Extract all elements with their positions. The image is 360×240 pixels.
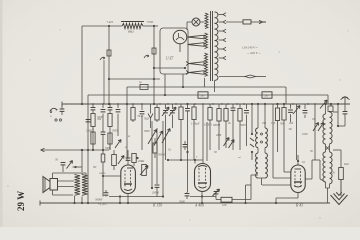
capacitor C10: [101, 128, 113, 151]
grid label: [158, 154, 166, 157]
svg-text:100: 100: [222, 203, 227, 207]
svg-text:5Ω: 5Ω: [289, 128, 292, 131]
tube V2 grid: [199, 168, 206, 186]
RF coil L2b upper: [330, 111, 333, 144]
bandfilter BF1 coil a upper: [256, 104, 258, 148]
tube V2 envelope A409: [195, 164, 211, 192]
resistor R14: [132, 154, 136, 167]
svg-text:5000: 5000: [105, 147, 111, 150]
resistor R8: [238, 104, 242, 150]
transformer TR1 core: [211, 11, 213, 81]
label cluster f: [343, 163, 349, 166]
main HT bus: [62, 102, 350, 107]
svg-text:5k15: 5k15: [138, 114, 144, 118]
svg-text:5000: 5000: [179, 200, 185, 204]
rectifier enclosure box: [160, 28, 188, 74]
tube U1 label U Z7: [166, 57, 173, 61]
tube V1 anode: [124, 168, 133, 191]
capacitor C15: [180, 141, 189, 161]
speaker LS1 cone: [43, 177, 50, 193]
switch S3: [250, 133, 254, 153]
label 1.50uF: [191, 122, 200, 126]
bias label: [98, 202, 107, 206]
svg-text:10000: 10000: [204, 123, 212, 127]
svg-text:5kΩ: 5kΩ: [144, 118, 149, 121]
svg-text:8kΩ: 8kΩ: [128, 30, 134, 34]
svg-text:200: 200: [289, 122, 294, 125]
node bus x82: [81, 103, 83, 105]
resistor R13 above V1: [99, 150, 116, 197]
switch S9: [118, 156, 124, 165]
resistor R15 horizontal: [216, 197, 251, 207]
wire coil joins: [320, 179, 330, 203]
wire L2 anode feed: [127, 87, 286, 104]
RF coil L2a lower: [323, 144, 330, 182]
anode pennant AP2: [188, 43, 205, 47]
anode pennant AP1: [188, 35, 205, 39]
tube V2 anode top: [198, 166, 207, 189]
resistor R6 10000: [204, 104, 212, 150]
svg-text:20kΩ: 20kΩ: [138, 159, 144, 163]
resistor R19: [192, 104, 196, 160]
label cluster d: [302, 133, 313, 153]
wire drop x187: [185, 103, 190, 192]
svg-text:DAC: DAC: [343, 163, 349, 166]
label cluster b: [214, 122, 246, 154]
wire drop x154: [153, 26, 155, 104]
wire drop x203: [203, 104, 207, 161]
svg-text:50000: 50000: [158, 154, 166, 157]
wire y150 tie: [88, 149, 109, 151]
wire V1 left cap: [95, 190, 108, 202]
choke Dr2 on L3: [262, 92, 272, 98]
potentiometer P20k: [138, 159, 148, 176]
resistor R1 8k (wirewound, with overline): [121, 22, 144, 29]
switch S10b: [154, 131, 163, 146]
resistor R10: [282, 103, 286, 172]
svg-text:+050: +050: [146, 20, 154, 24]
node bus x258: [257, 103, 259, 105]
svg-text:110-240 V∼: 110-240 V∼: [242, 46, 258, 50]
filament pennant FL1: [186, 62, 204, 66]
wire TR2 bottom: [75, 196, 83, 203]
transformer TR1 winding (heater): [205, 53, 208, 76]
switch S6: [318, 123, 324, 132]
resistor R5: [144, 104, 159, 122]
wire drop antenna: [338, 104, 347, 126]
chassis label 29 W: [16, 191, 26, 211]
dial lamp LA1: [192, 18, 200, 26]
node x82 y150: [81, 149, 83, 151]
svg-text:A 409: A 409: [194, 204, 204, 208]
switch S2 contact: [229, 140, 235, 149]
wire drop x127: [126, 103, 128, 160]
connector symbol P1 (pin+hook): [100, 50, 111, 60]
mains voltage text: [242, 46, 261, 56]
wire to bandfilter: [246, 175, 252, 203]
svg-text:U Z7: U Z7: [166, 57, 173, 61]
svg-text:Dr: Dr: [200, 94, 205, 98]
transformer TR1 secondary HT winding: [215, 12, 218, 80]
resistor R9: [273, 103, 280, 152]
svg-text:5000: 5000: [240, 124, 246, 127]
wire pickup input: [41, 148, 90, 152]
capacitor C8: [303, 104, 308, 118]
svg-text:29 W: 29 W: [16, 191, 26, 211]
label cluster g: [105, 128, 292, 161]
wire V3 top: [297, 155, 299, 165]
svg-text:1µ: 1µ: [139, 81, 142, 84]
connector symbol P2 (pin+hook): [144, 48, 156, 58]
wire L3 bias rail: [88, 95, 328, 203]
output transformer TR2 primary: [82, 175, 88, 196]
fuse F1: [243, 20, 251, 24]
tube V1 envelope K159: [121, 165, 136, 194]
svg-text:Dr: Dr: [264, 94, 269, 98]
svg-text:5000: 5000: [144, 130, 150, 133]
label cluster i: [196, 118, 315, 159]
node +050 label: [146, 20, 154, 24]
wire V3 anode loop: [305, 160, 320, 179]
resistor R3: [108, 104, 113, 150]
wire V1 grid left: [102, 175, 121, 177]
svg-text:→ 220 V ←: → 220 V ←: [246, 51, 261, 55]
svg-text:5000: 5000: [112, 130, 118, 133]
node bus x331: [330, 103, 332, 105]
ground symbol E1: [331, 180, 348, 205]
tube V3 electrodes: [294, 169, 302, 187]
RF coil L2b lower: [330, 144, 333, 184]
node bus x338: [337, 103, 339, 112]
capacitor C4: [140, 104, 145, 150]
resistor R2 1M: [86, 104, 95, 150]
wire top HT rail: [82, 25, 158, 27]
tube V1 label: [152, 204, 162, 208]
wire L1 screen feed: [108, 78, 160, 80]
wire coil top right: [333, 112, 339, 127]
switch S10c: [162, 129, 170, 144]
tube V3 label: [295, 204, 303, 208]
node J2: [153, 25, 155, 27]
trimmer capacitor CT2: [169, 104, 176, 128]
wire bias link: [262, 184, 291, 186]
label cluster h: [93, 134, 306, 169]
filament pennant FL2: [186, 71, 204, 75]
resistor R17: [332, 150, 343, 196]
choke Dr1 on L3: [198, 92, 208, 98]
wire speaker loop top: [53, 173, 87, 179]
jack symbol left: [50, 108, 57, 112]
RF coil L2a upper: [323, 103, 327, 144]
arrow junction T0: [148, 104, 153, 128]
label cluster e: [125, 130, 150, 149]
resistor R18: [179, 104, 183, 160]
capacitor C14 above speaker: [55, 159, 65, 173]
node bus x109: [108, 103, 110, 105]
switch S1 contact: [224, 138, 230, 147]
svg-text:50000: 50000: [95, 198, 103, 202]
svg-text:2000: 2000: [216, 134, 222, 137]
node bus x154: [153, 103, 155, 105]
bandfilter BF1 coil b lower: [265, 148, 267, 178]
svg-text:1000: 1000: [302, 133, 308, 136]
wire speaker to trafo: [58, 181, 75, 187]
wire V3 grid in: [273, 150, 291, 178]
node bus x265: [264, 103, 266, 105]
capacitor C0 at bus start: [60, 104, 65, 115]
svg-text:+425: +425: [106, 20, 114, 24]
bandfilter BF1 coil a lower: [256, 148, 258, 178]
capacitor C2: [97, 104, 105, 128]
resistor R12: [91, 128, 95, 151]
resistor R21 10000: [213, 104, 222, 150]
trimmer CT3: [213, 189, 220, 200]
mains plug arrow: [259, 20, 266, 23]
wire drop x252: [251, 103, 253, 160]
tube V2 label: [194, 204, 204, 208]
wire left drop x82: [81, 26, 83, 104]
speaker LS1 magnet: [50, 179, 58, 191]
switch S4: [293, 104, 300, 160]
wire V2 plate link: [167, 159, 203, 164]
rectifier tube U1 envelope: [173, 30, 187, 52]
resistor R7: [224, 104, 236, 150]
capacitor C13 grid: [179, 192, 189, 204]
output transformer TR2 secondary: [75, 175, 81, 196]
pickup terminals: [50, 115, 62, 121]
capacitor C11: [126, 150, 131, 165]
svg-text:K 159: K 159: [152, 204, 162, 208]
transformer TR1 winding (rect filament): [205, 33, 208, 49]
switch S11 above speaker: [67, 161, 83, 169]
wire x82 to output stage: [81, 150, 83, 172]
wire drop x315: [314, 104, 316, 160]
switch S10a: [148, 130, 157, 145]
node +425 label: [106, 20, 114, 24]
node J1: [108, 25, 110, 27]
wire V1 bottom: [109, 194, 164, 204]
node above V1: [136, 157, 138, 159]
resistor R11 small: [328, 104, 333, 111]
wire BF1 bottoms: [251, 133, 265, 185]
label cluster c: [271, 122, 294, 126]
wire R17 top: [333, 149, 341, 151]
switch S7 on bus: [320, 100, 327, 109]
wire drop x109: [104, 26, 109, 104]
svg-text:1·50µF: 1·50µF: [191, 122, 200, 126]
capacitor C9 on bias rail: [86, 120, 91, 122]
svg-text:10000: 10000: [213, 123, 221, 127]
wire x152 drop: [151, 121, 153, 189]
resistor R20: [153, 138, 157, 158]
capacitor C12: [155, 128, 160, 197]
trimmer capacitor CT1: [162, 104, 169, 160]
label cluster a: [97, 118, 118, 133]
capacitor C6: [244, 104, 249, 146]
wire x163 drop: [152, 121, 163, 197]
mains lead 2 with lug: [219, 75, 266, 78]
tube V1 grid (dashed): [125, 170, 131, 188]
wire V1 cathode to bus: [127, 197, 129, 204]
wire TR2 top: [82, 173, 86, 176]
fuse F2 on L2: [139, 81, 148, 89]
capacitor C3: [116, 104, 121, 136]
wire V2 bottom: [190, 192, 216, 205]
value 8k label: [128, 30, 134, 34]
switch S5: [313, 123, 319, 132]
svg-text:20000: 20000: [152, 192, 160, 195]
antenna A1: [341, 97, 350, 105]
svg-text:20000: 20000: [99, 172, 106, 175]
wire mains line: [226, 21, 261, 23]
wire transformer bottom: [164, 74, 215, 96]
svg-text:R 43: R 43: [295, 204, 303, 208]
transformer TR1 primary winding (lamp section): [205, 13, 208, 29]
wire rectifier cathode: [153, 67, 186, 69]
resistor R4 5k15: [131, 104, 144, 122]
ground bus: [40, 201, 330, 206]
bandfilter BF1 coil b upper: [265, 104, 267, 148]
switch S8: [115, 140, 121, 149]
wire V3 cathode: [275, 193, 298, 205]
tube V3 envelope R43: [291, 165, 305, 193]
wire speaker loop bottom: [53, 190, 74, 195]
wire lamp leads: [187, 22, 205, 30]
capacitor C7: [288, 104, 293, 122]
tube V3 grid: [295, 171, 301, 187]
paper specks: [7, 29, 348, 220]
transformer TR1 mains taps: [219, 13, 226, 60]
